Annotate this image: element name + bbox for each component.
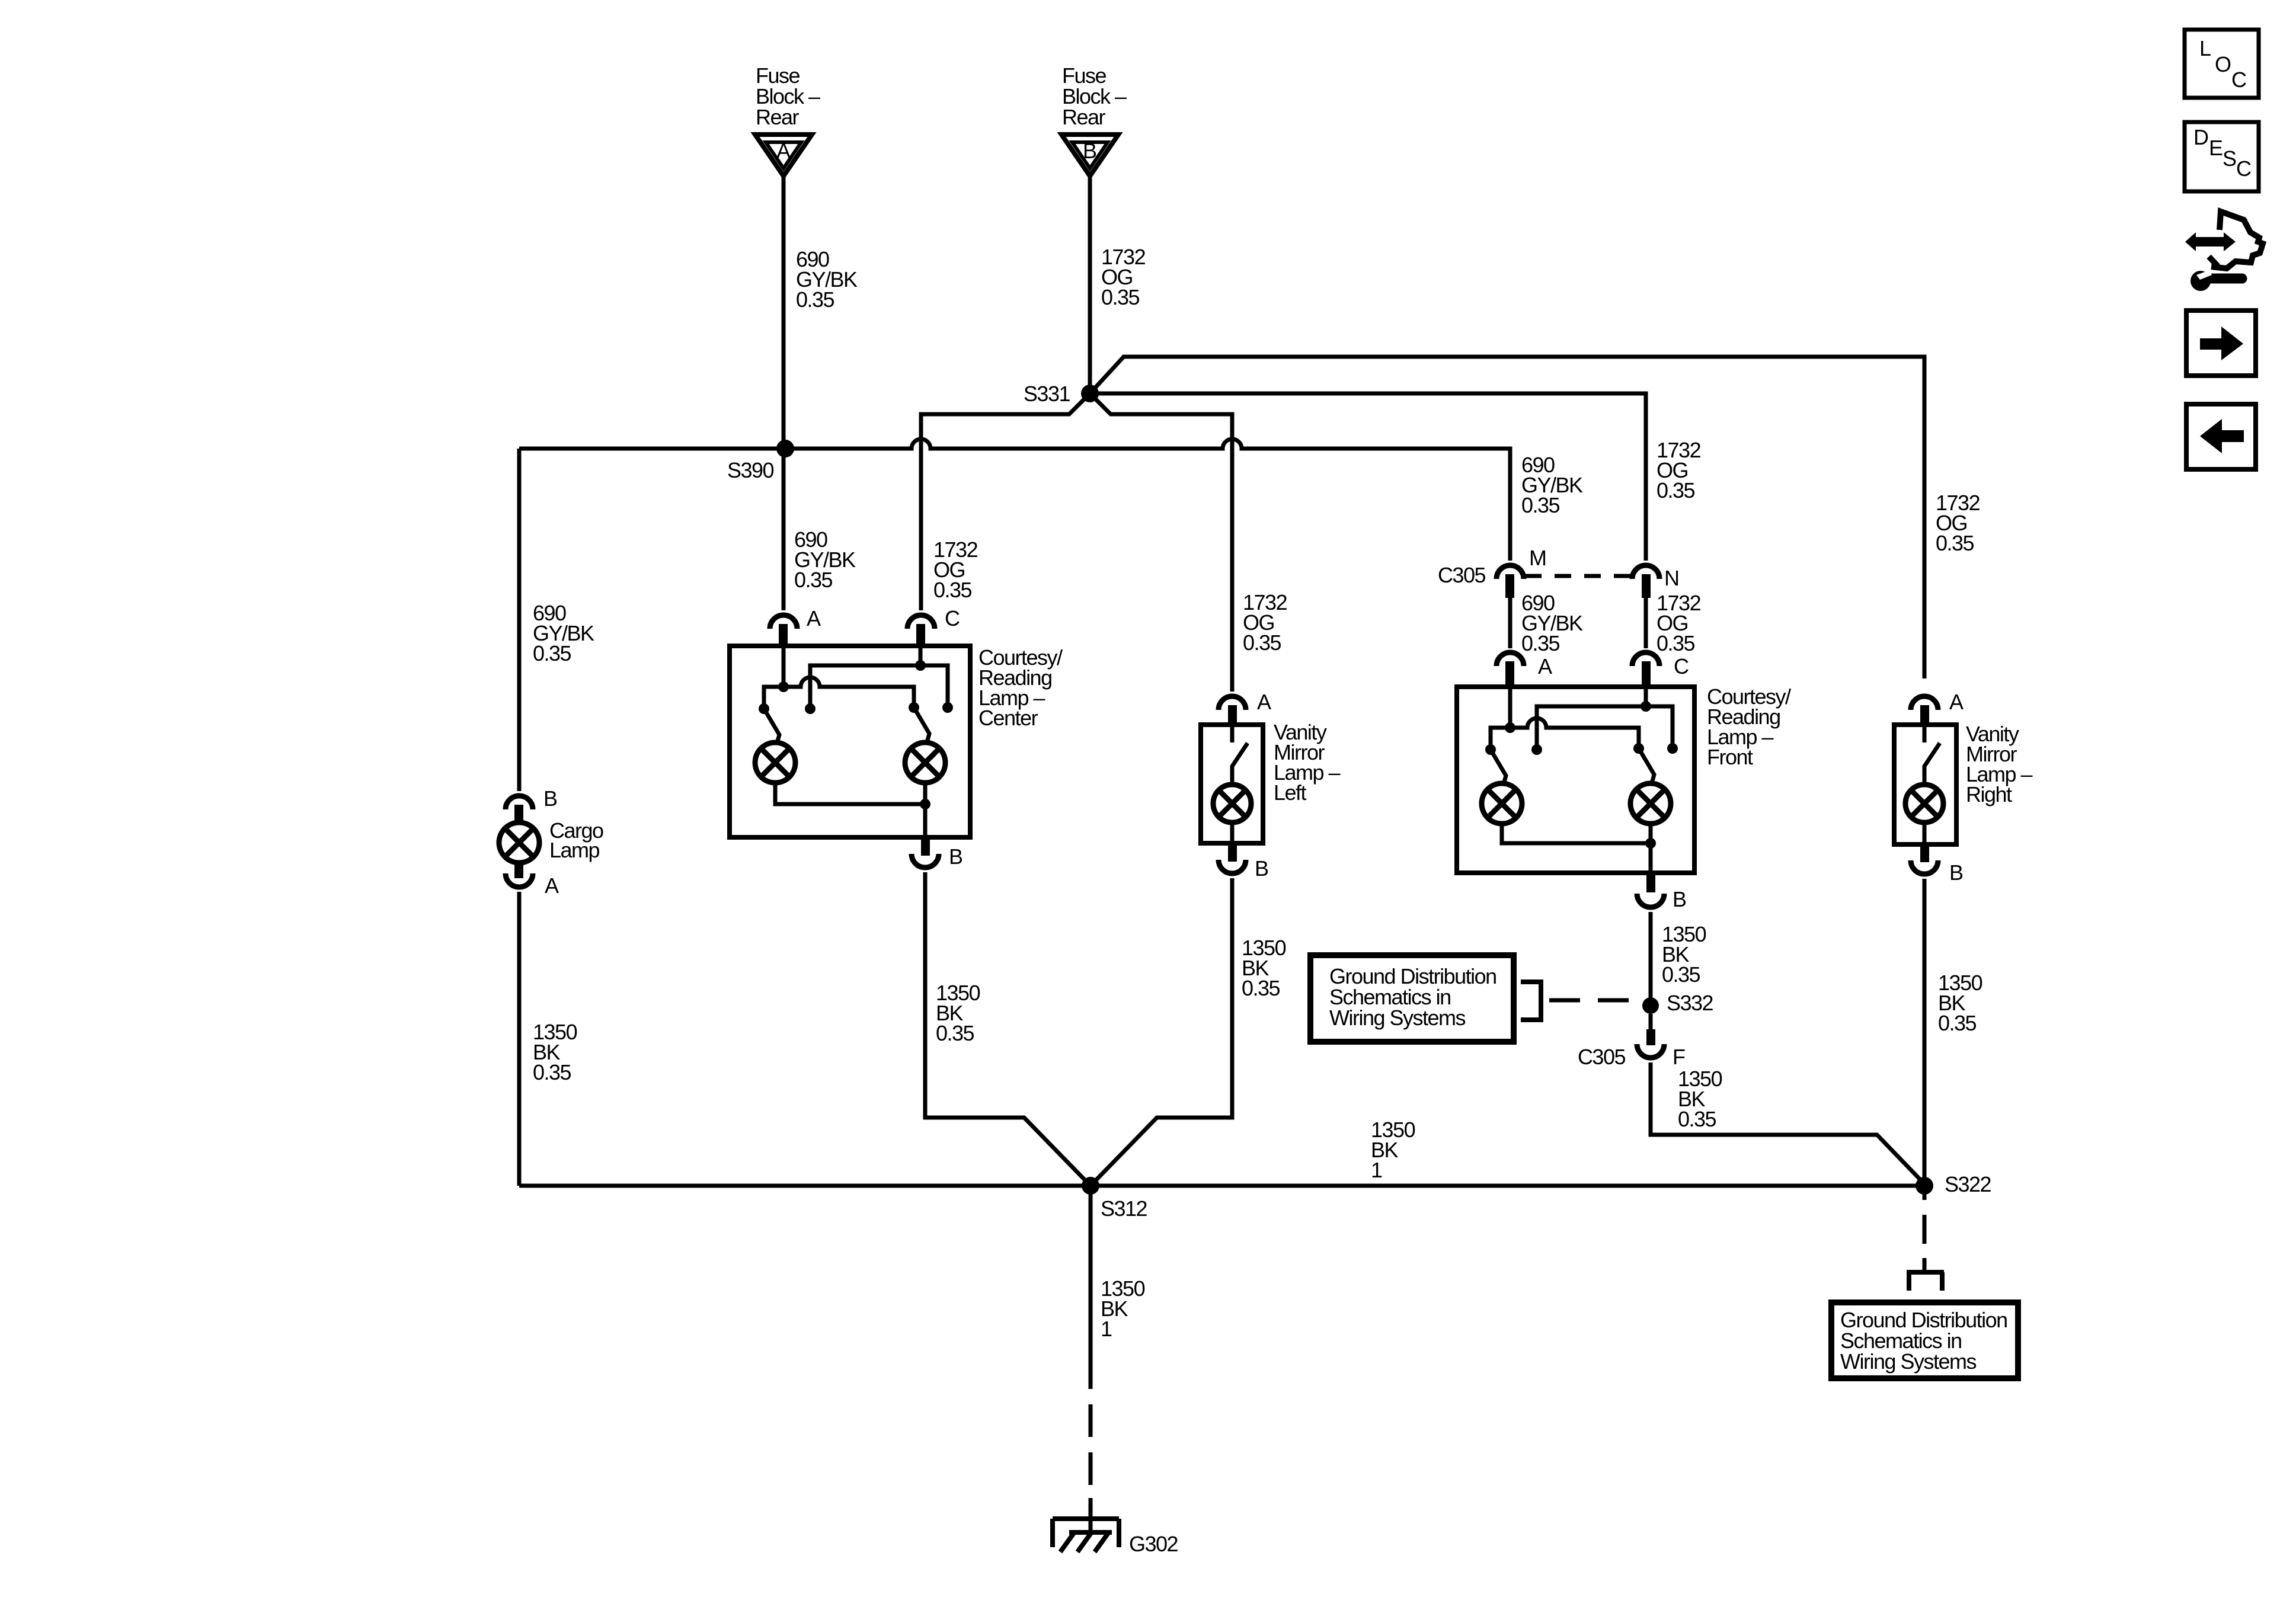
svg-text:0.35: 0.35 [533,1060,571,1084]
svg-text:B: B [1083,139,1096,163]
svg-text:C305: C305 [1438,563,1486,587]
label 1350 BK 1 (G302 wire) [1101,1276,1145,1341]
wire 1350 BK C305 F to S322 [1651,1062,1926,1186]
label 1350 BK 0.35 (C305 F to S322 wire) [1678,1067,1722,1131]
svg-text:0.35: 0.35 [1243,630,1281,655]
wire 690 GY/BK from fuse A down through S390 to courtesy center pin A [782,176,786,610]
vanity left internal switch and lamp [1213,725,1251,843]
label 690 GY/BK 0.35 (below S390) [794,527,856,592]
DESC navigation box [2185,122,2259,191]
ground distribution reference box (bottom right) [1831,1302,2018,1378]
courtesy center internal wiring [755,646,953,837]
svg-text:L: L [2199,36,2211,60]
svg-text:B: B [949,844,962,869]
forward navigation arrow box [2186,311,2256,376]
label 1732 OG 0.35 (above C305 N) [1657,438,1701,502]
splice S322 [1916,1172,1991,1196]
svg-text:Front: Front [1707,745,1753,769]
wire 1350 BK 1 ground bus S312 to S322 [519,1184,1924,1188]
courtesy/reading lamp center: pin A connector [770,606,821,646]
wire 1350 BK vanity right B down to S322 [1923,879,1927,1186]
wire 690 GY/BK C305 M to courtesy front pin A [1508,598,1512,648]
label 1350 BK 0.35 (front pin B wire) [1662,922,1706,987]
svg-text:B: B [543,786,557,811]
vanity mirror lamp right: pin A connector [1911,690,1964,725]
svg-text:Left: Left [1274,780,1307,805]
label 690 GY/BK 0.35 (to C305 M) [1521,453,1583,517]
svg-text:F: F [1673,1045,1685,1069]
ground G302 [1053,1498,1178,1556]
courtesy center label [978,645,1063,730]
svg-text:A: A [807,606,821,630]
label 1350 BK 0.35 (vanity right B wire) [1938,971,1982,1035]
bracket above reference box [1907,1272,1944,1291]
svg-text:A: A [1949,690,1964,714]
vanity right label [1966,722,2033,806]
label 690 GY/BK 0.35 (cargo wire) [533,601,594,665]
label 1350 BK 1 (bus right section) [1371,1118,1415,1182]
wire 1732 OG: S331 branch to vanity mirror left pin A [1090,393,1232,692]
cargo lamp connector pin B [506,786,557,824]
back navigation arrow box [2186,404,2256,469]
wire 1732 OG: S331 left branch to courtesy center pin C [921,393,1090,610]
svg-text:0.35: 0.35 [1936,531,1974,555]
label 1732 OG 0.35 (right wire) [1936,491,1980,555]
courtesy front pin B connector [1637,873,1686,911]
label 1732 OG 0.35 (center pin C wire) [933,537,978,602]
svg-text:S390: S390 [727,458,774,482]
courtesy center pin B connector [912,837,962,869]
vanity right pin B connector [1911,844,1963,885]
svg-text:0.35: 0.35 [1657,478,1695,502]
label 1350 BK 0.35 (center B wire) [936,981,980,1045]
label 1732 OG 0.35 (fuse B wire) [1101,245,1146,309]
svg-text:0.35: 0.35 [1678,1107,1716,1131]
splice S312 [1082,1177,1147,1221]
svg-text:A: A [776,139,791,163]
svg-text:Rear: Rear [1062,105,1106,129]
label 1350 BK 0.35 (cargo ground wire) [533,1020,577,1084]
svg-text:Right: Right [1966,782,2012,806]
svg-text:Rear: Rear [756,105,800,129]
splice S390 [727,440,794,482]
svg-text:0.35: 0.35 [1521,493,1560,517]
LOC navigation box [2185,30,2259,98]
svg-text:S332: S332 [1667,991,1713,1015]
svg-text:N: N [1664,566,1679,590]
label 690 GY/BK 0.35 (C305 M to front pin A) [1521,591,1583,655]
label 1350 BK 0.35 (vanity left B wire) [1242,936,1286,1000]
svg-text:0.35: 0.35 [796,287,834,312]
svg-text:0.35: 0.35 [533,641,571,665]
wire 1350 BK vanity left B to S312 [1091,878,1232,1186]
fuse block B (Fuse Block - Rear, terminal B) [1061,63,1127,176]
svg-text:1: 1 [1101,1317,1112,1341]
vanity mirror lamp left: pin A connector [1219,690,1271,725]
svg-text:Wiring Systems: Wiring Systems [1840,1349,1977,1374]
svg-text:A: A [1257,690,1271,714]
bracket from reference box [1521,982,1541,1020]
courtesy/reading lamp front: pin A connector [1496,652,1552,687]
svg-text:E: E [2209,136,2223,160]
svg-text:B: B [1949,860,1963,885]
connector C305 pin N [1632,565,1679,598]
wire 690 GY/BK: horizontal through S390 with hops, to C305 pin M [519,439,1510,561]
dashed wire S322 to reference bracket [1923,1186,1927,1272]
wire 1350 BK courtesy center B to S312 [925,872,1091,1186]
dashed wire to G302 [1089,1356,1093,1502]
wire 690 GY/BK down to cargo lamp pin B [517,449,522,791]
courtesy/reading lamp center: pin C connector [907,606,960,646]
splice S332 [1642,991,1713,1015]
svg-text:S322: S322 [1945,1172,1991,1196]
wire 1732 OG from fuse B down to S331 [1088,176,1092,393]
svg-text:0.35: 0.35 [794,568,833,592]
svg-text:C: C [2231,68,2246,92]
svg-text:S: S [2223,146,2236,171]
wire 1732 OG: S331 to C305 pin N [1090,393,1646,561]
svg-text:0.35: 0.35 [1521,631,1560,655]
svg-text:C: C [945,606,960,630]
svg-text:A: A [545,873,559,898]
vanity mirror lamp right box [1894,725,1956,844]
svg-text:G302: G302 [1129,1532,1178,1556]
wire 1350 BK from cargo lamp A down to S312 run [517,892,522,1186]
wire 1350 BK 1 from S312 toward G302 [1089,1186,1093,1356]
svg-text:0.35: 0.35 [1938,1011,1977,1035]
svg-text:A: A [1538,654,1552,678]
svg-text:0.35: 0.35 [1101,285,1140,309]
fuse block A (Fuse Block - Rear, terminal A) [755,63,820,176]
svg-text:0.35: 0.35 [933,578,972,602]
cargo lamp connector pin A [506,862,559,898]
svg-text:C: C [1674,654,1689,678]
svg-text:B: B [1255,856,1268,881]
svg-text:1: 1 [1371,1158,1382,1182]
svg-text:0.35: 0.35 [1662,962,1700,987]
courtesy/reading lamp front box [1457,687,1694,873]
wire 1350 BK front B to S332 [1649,912,1653,1001]
svg-text:S312: S312 [1101,1196,1147,1221]
label 690 GY/BK 0.35 (fuse A wire) [796,247,858,312]
svg-text:Center: Center [978,706,1038,730]
label 1732 OG 0.35 (C305 N to front pin C) [1657,591,1701,655]
svg-text:O: O [2215,52,2231,76]
svg-text:Lamp: Lamp [549,838,600,862]
vanity left pin B connector [1219,843,1268,881]
splice S331 [1024,382,1099,406]
svg-text:0.35: 0.35 [1657,631,1695,655]
svg-text:D: D [2193,125,2208,149]
svg-text:0.35: 0.35 [936,1021,974,1045]
svg-text:S331: S331 [1024,382,1070,406]
courtesy front label [1707,684,1791,769]
ground distribution reference box (left) [1310,955,1514,1042]
dashed connector line C305 M-N [1525,574,1631,578]
connector C305 pin F [1578,1014,1685,1069]
vanity left label [1274,720,1341,805]
connector C305 pin M [1438,546,1546,598]
vanity mirror lamp left box [1201,725,1263,843]
svg-text:C305: C305 [1578,1045,1626,1069]
courtesy/reading lamp center box [730,646,970,837]
svg-text:B: B [1673,887,1686,911]
svg-text:0.35: 0.35 [1242,976,1280,1000]
vanity right internal switch and lamp [1905,725,1943,844]
svg-text:Wiring Systems: Wiring Systems [1329,1006,1466,1030]
svg-text:C: C [2236,156,2251,181]
wire 1732 OG: S331 upper branch to vanity mirror right pin A [1090,357,1924,678]
service/diagnostic icon (arrow, outline, wrench) [2185,212,2263,291]
wire 1732 OG C305 N to courtesy front pin C [1644,598,1648,648]
courtesy/reading lamp front: pin C connector [1632,652,1689,687]
label 1732 OG 0.35 (vanity left wire) [1243,590,1287,655]
courtesy front internal wiring [1482,687,1678,873]
cargo lamp [499,818,603,863]
dashed line bracket to S332 [1549,998,1642,1003]
svg-text:M: M [1529,546,1546,570]
